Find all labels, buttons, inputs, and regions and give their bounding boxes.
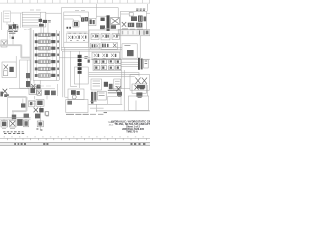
small valve row R1b [94,66,121,70]
bus lines W2 [89,73,139,77]
pump group P1 [8,22,18,31]
valve pair VX1 [101,18,105,22]
valve block VB2 [122,36,140,59]
bus lines W3 [61,47,122,51]
wire [8,98,23,118]
top-right block B2 [121,4,150,30]
pilot valves PV1 [64,15,88,28]
motor chain M3 [34,106,49,130]
pilot valve group G1 [91,34,99,40]
gray trunk hose H1 [0,28,31,80]
relief cluster RV1 [121,13,147,30]
motor below bank MB1 [31,80,40,88]
DCV V1 [35,33,59,36]
valve CV0 [12,37,14,39]
filter F1 [3,11,10,22]
box RB1 [128,96,148,111]
pump outlet marks [8,32,17,34]
long wire pair W1 [63,47,68,97]
swing motor SM1 [0,89,8,97]
travel motor TM1 [132,84,148,98]
pilot valve group G2 [101,34,110,40]
DCV V4 [35,53,59,56]
valve pair row VP1 [9,84,58,99]
wire [59,51,90,87]
solenoid valve SV1 [89,18,97,25]
gear pump GP1 [68,87,84,100]
DCV V3 [35,47,59,50]
valve cluster on manifold VM1 [39,19,51,27]
pilot valve group G4 [91,43,100,49]
cooler fan motor FM1 [116,86,122,96]
pump column PC1 [91,90,118,103]
valve cluster BV2 [45,112,48,116]
control box CB1 [29,100,44,107]
text F.F row [136,9,145,10]
main block B1 outline [61,8,118,51]
check valve mark [88,60,90,63]
valve row VR0 in B1 [66,32,88,42]
cooler box C1 [20,60,31,88]
long wire W5 [88,97,150,115]
mid manifold box MM1 [89,28,121,60]
pilot valve group G3 [112,34,119,40]
DCV V2 [35,40,59,43]
box LB2 [114,79,121,90]
engine box E1 [66,100,88,113]
DCV V5 [35,60,59,63]
reservoir tank T1 [118,30,150,36]
pilot valve group G5 [101,42,117,49]
bottom-left valve row BV1 [0,118,31,129]
wire [8,30,13,45]
return lines W4 [91,58,151,60]
check valve stack CK1 [78,51,88,88]
hydrostatic motors HM1 [130,73,149,91]
valve bank rails [33,30,59,80]
svg-text:TM0173-A: TM0173-A [126,131,138,134]
wire [41,13,62,34]
pump M2 [104,82,113,89]
label dashes [75,10,85,12]
DCV V7 [35,74,59,77]
accumulator A1 [121,58,149,70]
filter box F2 [2,56,16,78]
caption dashes [66,113,89,115]
valve sub-plate box SP1 [93,59,121,71]
wire [2,12,23,30]
main spool bar S1 [100,15,120,31]
radiator box LB1 [91,79,102,90]
lower valve box TR3 [92,52,120,60]
pilot valve PV2 [12,103,29,119]
gray hose H3 [7,97,27,111]
label dashes [30,9,41,11]
wire [97,4,107,18]
DCV V6 [35,67,59,70]
strainer box ST1 [1,40,7,47]
manifold block M1 [22,12,46,27]
small valve row R1a [94,60,121,64]
wire [112,70,130,111]
box around stack [74,67,88,84]
